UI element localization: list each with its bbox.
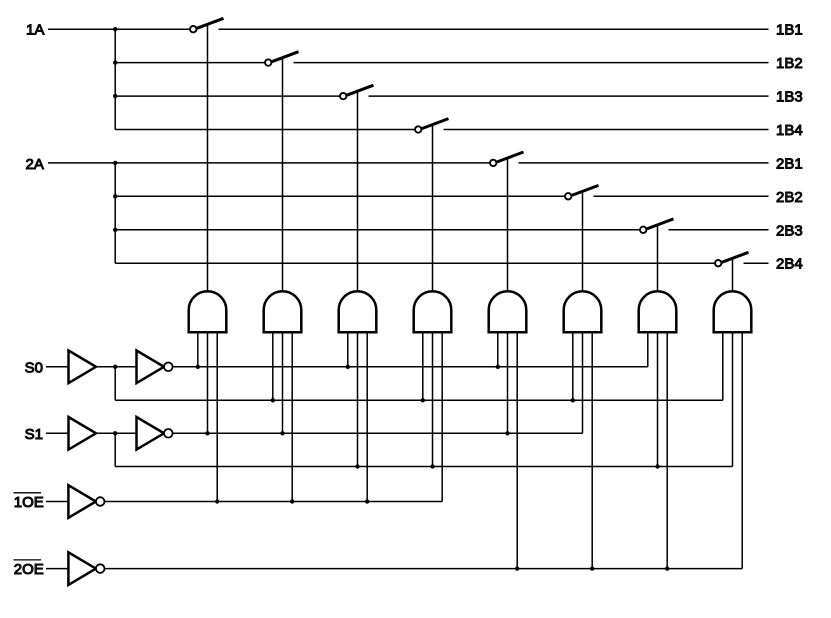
svg-text:2B1: 2B1: [776, 155, 803, 172]
svg-text:S0: S0: [25, 359, 43, 376]
svg-text:1B4: 1B4: [776, 122, 803, 139]
svg-text:1B3: 1B3: [776, 89, 803, 106]
svg-text:2A: 2A: [26, 156, 44, 173]
svg-text:1B2: 1B2: [776, 55, 803, 72]
svg-text:S1: S1: [25, 426, 43, 443]
svg-text:2B3: 2B3: [776, 222, 803, 239]
svg-text:1B1: 1B1: [776, 22, 803, 39]
svg-text:2B2: 2B2: [776, 189, 803, 206]
svg-text:1A: 1A: [26, 22, 44, 39]
svg-text:2OE: 2OE: [14, 561, 44, 578]
svg-text:2B4: 2B4: [776, 256, 803, 273]
svg-text:1OE: 1OE: [14, 494, 44, 511]
